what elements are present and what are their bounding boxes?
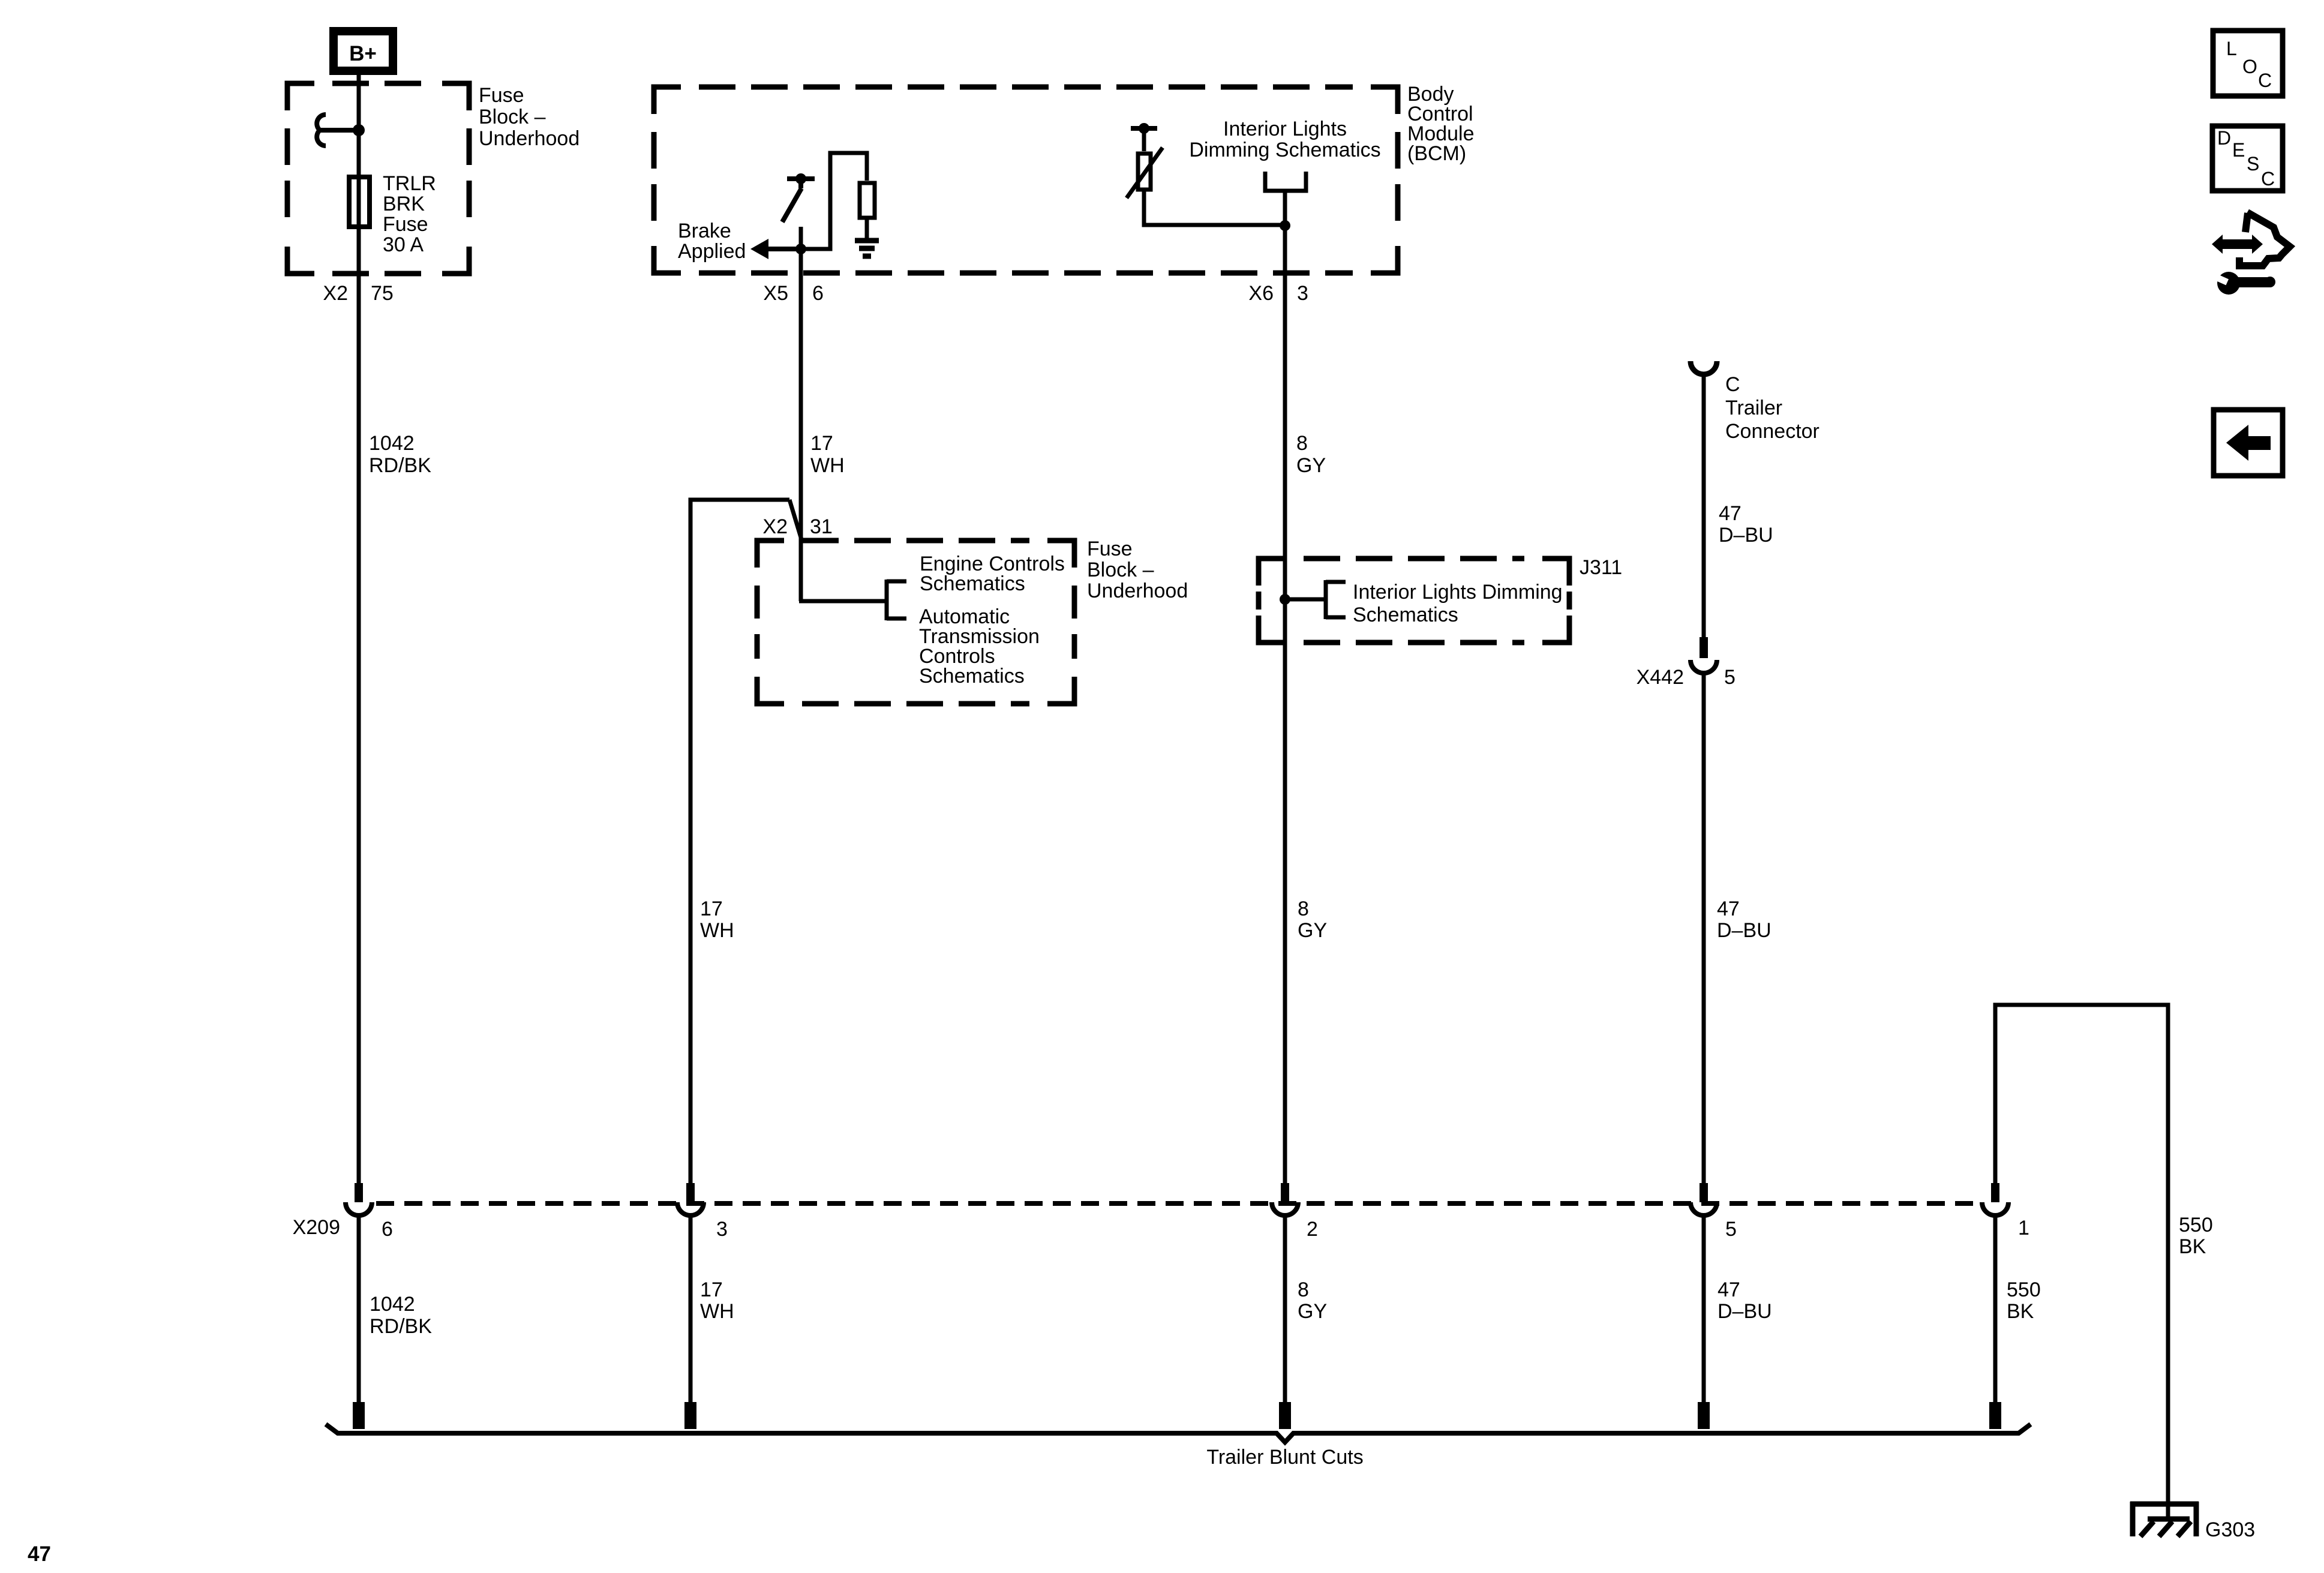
icon back arrow box — [2214, 410, 2283, 476]
branch bracket interior lights dimming — [1326, 580, 1346, 619]
svg-text:17: 17 — [700, 897, 723, 920]
ground (internal BCM) — [855, 241, 879, 256]
svg-text:BK: BK — [2007, 1300, 2034, 1323]
wire 47 D-BU below X209 — [1702, 1215, 1706, 1402]
rheostat dimmer — [1127, 123, 1163, 198]
svg-text:X2: X2 — [762, 515, 788, 538]
svg-text:6: 6 — [382, 1218, 393, 1241]
wire 550 BK below X209 — [1993, 1215, 1998, 1402]
blunt cut terminal wire 1 — [353, 1402, 365, 1429]
svg-text:8: 8 — [1296, 432, 1308, 455]
svg-text:1: 1 — [2018, 1217, 2029, 1239]
svg-text:X2: X2 — [323, 282, 348, 305]
wire 1042 RD/BK below X209 — [357, 1215, 361, 1402]
svg-text:2: 2 — [1307, 1218, 1318, 1241]
svg-text:C: C — [1725, 373, 1740, 396]
svg-text:BRK: BRK — [383, 193, 425, 215]
svg-text:1042: 1042 — [369, 432, 415, 455]
svg-text:X6: X6 — [1248, 282, 1274, 305]
fuse block underhood box 2 (dashed) — [757, 541, 1074, 704]
svg-text:WH: WH — [700, 1300, 734, 1323]
wire X5-6 vertical — [799, 227, 803, 601]
battery feed symbol B+ — [334, 31, 393, 71]
svg-text:Interior Lights: Interior Lights — [1223, 118, 1347, 140]
svg-text:Fuse: Fuse — [383, 213, 428, 236]
svg-text:RD/BK: RD/BK — [370, 1315, 432, 1338]
wire 47 D-BU lower — [1702, 673, 1706, 1183]
svg-text:J311: J311 — [1580, 556, 1622, 579]
svg-text:Schematics: Schematics — [1353, 604, 1458, 626]
svg-text:Brake: Brake — [678, 220, 731, 242]
svg-text:3: 3 — [716, 1218, 728, 1241]
svg-text:550: 550 — [2179, 1214, 2213, 1236]
svg-text:C: C — [2261, 168, 2275, 190]
wire 17 WH below X209 — [689, 1215, 693, 1402]
fuse block underhood box 1 (dashed) — [287, 83, 469, 274]
svg-text:TRLR: TRLR — [383, 172, 436, 195]
svg-text:Interior Lights Dimming: Interior Lights Dimming — [1353, 581, 1563, 604]
X209 terminal wire 3 — [1272, 1183, 1298, 1215]
svg-text:47: 47 — [1717, 897, 1740, 920]
svg-text:RD/BK: RD/BK — [369, 454, 431, 477]
svg-text:Dimming Schematics: Dimming Schematics — [1189, 139, 1380, 161]
svg-text:D: D — [2217, 127, 2231, 149]
icon schematic pointer (dog head with arrow and wrench) — [2212, 212, 2290, 295]
svg-text:Underhood: Underhood — [1087, 580, 1188, 602]
bus bar hook — [317, 115, 326, 146]
blunt cut terminal wire 2 — [684, 1402, 696, 1429]
resistor — [860, 183, 875, 218]
svg-text:WH: WH — [810, 454, 845, 477]
svg-text:(BCM): (BCM) — [1407, 142, 1466, 165]
svg-text:47: 47 — [1719, 502, 1742, 525]
junction dot brake applied — [795, 244, 806, 254]
wire to engine controls bracket — [799, 599, 887, 604]
wire rheostat to node — [1144, 191, 1285, 225]
svg-text:5: 5 — [1725, 1218, 1737, 1241]
svg-text:E: E — [2232, 139, 2245, 161]
svg-text:Trailer Blunt Cuts: Trailer Blunt Cuts — [1206, 1446, 1363, 1469]
wire u-bracket down — [1283, 191, 1287, 226]
svg-text:X209: X209 — [293, 1216, 340, 1239]
blunt cut terminal wire 3 — [1279, 1402, 1291, 1429]
svg-text:Underhood: Underhood — [479, 127, 580, 150]
svg-text:5: 5 — [1724, 666, 1736, 689]
svg-text:O: O — [2242, 56, 2257, 77]
svg-text:30 A: 30 A — [383, 233, 424, 256]
wire 8 GY vertical X6-3 to X209 — [1283, 226, 1287, 1183]
trailer blunt cuts brace — [326, 1424, 2031, 1442]
svg-text:D–BU: D–BU — [1719, 524, 1773, 547]
brake applied arrow — [762, 247, 801, 251]
body control module BCM box (dashed) — [654, 87, 1398, 273]
svg-text:L: L — [2226, 38, 2237, 59]
svg-text:3: 3 — [1297, 282, 1308, 305]
svg-text:Block –: Block – — [1087, 559, 1154, 581]
svg-text:Fuse: Fuse — [1087, 538, 1133, 560]
wire jog to 17 WH lower — [690, 500, 789, 1183]
fuse TRLR BRK 30A — [349, 177, 370, 227]
X209 terminal wire 2 — [677, 1183, 704, 1215]
svg-text:GY: GY — [1298, 919, 1327, 942]
ground G303 — [2130, 1502, 2199, 1536]
svg-text:Schematics: Schematics — [919, 665, 1025, 688]
wrench — [2213, 272, 2275, 295]
svg-text:WH: WH — [700, 919, 734, 942]
svg-text:BK: BK — [2179, 1235, 2206, 1258]
blunt cut terminal wire 4 — [1698, 1402, 1710, 1429]
wire resistor to ground — [865, 220, 869, 238]
svg-text:17: 17 — [700, 1278, 723, 1301]
svg-text:Block –: Block – — [479, 106, 546, 128]
svg-text:6: 6 — [812, 282, 824, 305]
svg-text:75: 75 — [371, 282, 394, 305]
X209 terminal wire 5 — [1982, 1183, 2008, 1215]
X209 terminal wire 1 — [346, 1183, 372, 1215]
svg-text:X5: X5 — [763, 282, 788, 305]
splice J311 box (dashed) — [1259, 559, 1569, 643]
connector X209 dashed line — [376, 1201, 1981, 1206]
wire to dimming bracket — [1285, 598, 1326, 602]
svg-text:B+: B+ — [349, 42, 377, 65]
svg-text:Trailer: Trailer — [1725, 397, 1782, 419]
wire 1042 RD/BK vertical from B+ through fuse to X209 — [357, 75, 361, 1183]
wire hook to junction — [320, 128, 359, 133]
svg-text:8: 8 — [1298, 1278, 1309, 1301]
double arrow — [2212, 235, 2263, 254]
svg-text:S: S — [2247, 153, 2259, 175]
junction dot J311 — [1280, 594, 1290, 605]
junction dot node 8GY — [1280, 220, 1290, 231]
icon LOC box — [2213, 31, 2283, 96]
svg-text:D–BU: D–BU — [1717, 919, 1771, 942]
svg-text:Schematics: Schematics — [920, 572, 1025, 595]
pull-down resistor branch — [801, 153, 867, 249]
svg-text:D–BU: D–BU — [1718, 1300, 1772, 1323]
svg-text:47: 47 — [1718, 1278, 1740, 1301]
icon DESC box — [2212, 126, 2283, 191]
inline connector X442 pin 5 — [1691, 637, 1717, 673]
dog head outline — [2239, 212, 2290, 266]
wire 550 BK top run — [1995, 1005, 2168, 1519]
inline connector X2 pin 31 diagonal — [789, 500, 801, 539]
X209 terminal wire 4 — [1691, 1183, 1717, 1215]
svg-text:GY: GY — [1296, 454, 1326, 477]
blunt cut terminal wire 5 — [1989, 1402, 2001, 1429]
svg-text:Connector: Connector — [1725, 420, 1819, 443]
svg-text:1042: 1042 — [370, 1293, 415, 1316]
trailer connector C half circle — [1691, 361, 1717, 374]
svg-text:8: 8 — [1298, 897, 1309, 920]
svg-text:17: 17 — [810, 432, 833, 455]
u-bracket to dimming schematics — [1265, 172, 1306, 191]
svg-text:X442: X442 — [1637, 666, 1684, 689]
svg-text:Fuse: Fuse — [479, 84, 524, 107]
junction dot — [353, 124, 365, 136]
wire 8 GY below X209 — [1283, 1215, 1287, 1402]
wire 47 D-BU upper — [1702, 372, 1706, 637]
svg-text:GY: GY — [1298, 1300, 1327, 1323]
svg-text:31: 31 — [810, 515, 833, 538]
branch bracket engine controls — [887, 580, 906, 620]
svg-text:550: 550 — [2007, 1278, 2041, 1301]
svg-text:G303: G303 — [2205, 1518, 2255, 1541]
brake switch — [782, 173, 815, 222]
svg-text:C: C — [2258, 70, 2272, 91]
svg-text:47: 47 — [28, 1542, 51, 1566]
svg-text:Applied: Applied — [678, 240, 746, 263]
